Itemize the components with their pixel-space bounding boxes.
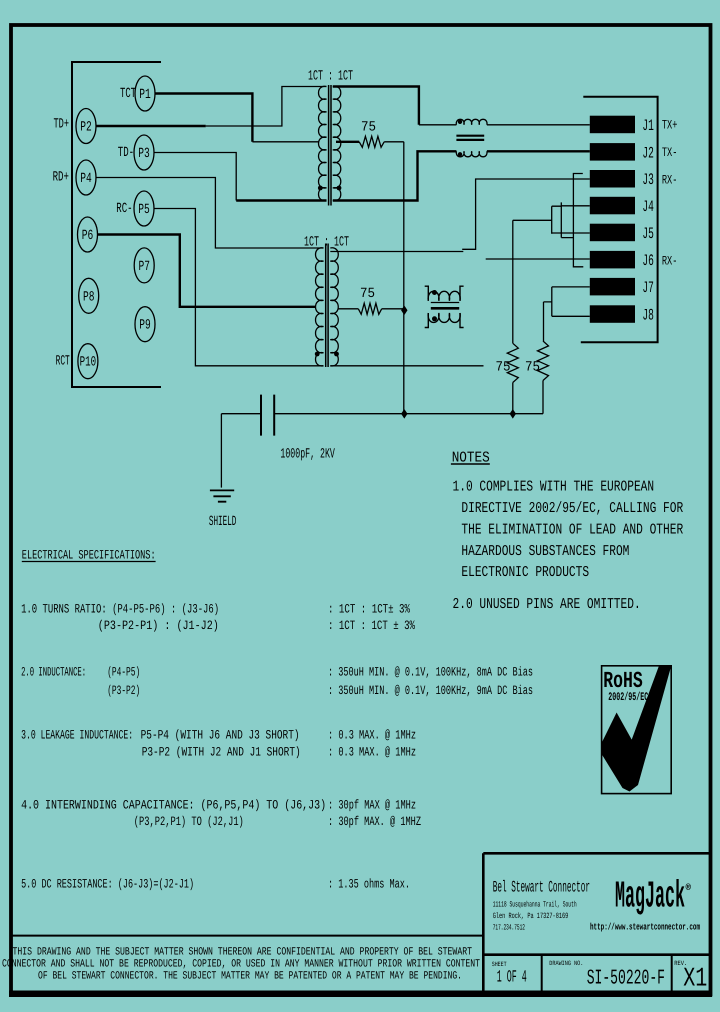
transformer T1 phase dot secondary (337, 186, 342, 191)
svg-text:1CT : 1CT: 1CT : 1CT (308, 69, 353, 85)
pin P9 (135, 307, 155, 342)
svg-text:3.0 LEAKAGE INDUCTANCE:: 3.0 LEAKAGE INDUCTANCE: (21, 728, 133, 743)
svg-text:75: 75 (361, 120, 376, 136)
svg-text:P6: P6 (82, 228, 94, 244)
svg-text:J7: J7 (642, 279, 654, 297)
wire P4 (RD+) to T2 primary top (96, 178, 324, 249)
svg-text:2002/95/EC: 2002/95/EC (608, 691, 648, 704)
wire bottom termination net (275, 413, 543, 415)
svg-text:P3-P2 (WITH J2 AND J1 SHORT): P3-P2 (WITH J2 AND J1 SHORT) (142, 745, 301, 760)
svg-text:J2: J2 (642, 144, 654, 162)
svg-text:RX-: RX- (662, 173, 678, 188)
wire T1 secondary bottom to choke L1 (333, 151, 457, 200)
svg-text:RX-: RX- (662, 254, 678, 269)
svg-text:THIS DRAWING AND THE SUBJECT M: THIS DRAWING AND THE SUBJECT MATTER SHOW… (13, 947, 473, 959)
wire to J7 (552, 286, 590, 288)
transformer T1 core (329, 85, 331, 206)
title address line 1 (493, 900, 577, 909)
wire R3 bottom lead (512, 383, 514, 414)
svg-text:75: 75 (360, 286, 375, 302)
svg-text:J4: J4 (642, 198, 654, 216)
wire P2 (TD+) to T1 primary top (96, 87, 327, 127)
jack pin J4 pad (590, 197, 635, 215)
resistor R1 value 75 (361, 120, 376, 136)
svg-text:P4: P4 (80, 171, 92, 187)
choke L2 bottom winding (425, 313, 464, 328)
wire P1 (TCT) to T1 primary center tap (155, 94, 319, 142)
svg-text:ELECTRONIC PRODUCTS: ELECTRONIC PRODUCTS (461, 564, 589, 581)
choke L1 phase dot top (458, 120, 462, 124)
resistor R2 value 75 (360, 286, 375, 302)
svg-text:J8: J8 (642, 307, 654, 325)
revision X1 (683, 965, 707, 995)
svg-text:THE ELIMINATION OF LEAD AND OT: THE ELIMINATION OF LEAD AND OTHER (461, 521, 683, 538)
jack pin J7 pad (590, 278, 635, 296)
wire to J8 (552, 315, 590, 317)
svg-text:(P3-P2-P1) : (J1-J2): (P3-P2-P1) : (J1-J2) (98, 618, 219, 633)
wire T2 secondary top (330, 251, 463, 253)
transformer T1 secondary winding (333, 86, 341, 200)
drawing number SI-50220-F (587, 967, 665, 990)
svg-text:®: ® (686, 883, 692, 893)
junction node R1 net / bottom net (401, 409, 407, 419)
resistor R4 (538, 341, 549, 381)
plug connector P box outline (72, 62, 161, 387)
label RD+ (53, 170, 69, 186)
jack pin J6 pad (590, 251, 635, 269)
svg-text:CONNECTOR AND SHALL NOT BE REP: CONNECTOR AND SHALL NOT BE REPRODUCED, C… (2, 959, 480, 971)
spec 1.0 turns ratio (21, 602, 415, 634)
ground symbol (shield) (210, 490, 234, 501)
svg-text:: 350uH MIN. @ 0.1V, 100KHz, 9: : 350uH MIN. @ 0.1V, 100KHz, 9mA DC Bias (328, 683, 533, 698)
label J3 (642, 171, 654, 189)
resistor R1 (336, 136, 404, 147)
svg-text:SHEET: SHEET (492, 961, 507, 968)
svg-text:TD+: TD+ (54, 117, 70, 133)
transformer T2 phase dot secondary (334, 352, 339, 357)
svg-text:Bel Stewart Connector: Bel Stewart Connector (493, 879, 590, 897)
wire vertical jog J3 to J6 (573, 174, 583, 267)
spec 3.0 leakage inductance (21, 728, 416, 760)
label RX- (J3) (662, 173, 678, 188)
svg-text:P2: P2 (80, 120, 92, 136)
RoHS logo box (602, 666, 672, 794)
wire to J4 (561, 205, 590, 207)
resistor R2 (339, 303, 405, 314)
jack pin J2 pad (590, 143, 635, 161)
svg-text:TD-: TD- (118, 145, 134, 161)
RoHS logo 2002/95/EC (608, 691, 648, 704)
svg-text:J3: J3 (642, 171, 654, 189)
sheet number 1 OF 4 (497, 969, 527, 988)
pin P2 (76, 109, 96, 144)
svg-text:4.0 INTERWINDING CAPACITANCE:: 4.0 INTERWINDING CAPACITANCE: (P6,P5,P4)… (21, 798, 326, 813)
resistor R3 (507, 343, 518, 382)
label SHIELD (209, 514, 237, 530)
jack pin J5 pad (590, 224, 635, 242)
svg-text:http://www.stewartconnector.co: http://www.stewartconnector.com (590, 922, 700, 933)
svg-text:TX-: TX- (662, 145, 678, 160)
transformer T1 primary winding (319, 86, 327, 200)
svg-text:1.0 TURNS RATIO: (P4-P5-P6) :: 1.0 TURNS RATIO: (P4-P5-P6) : (J3-J6) (21, 602, 219, 617)
choke L2 phase dot top (432, 290, 437, 295)
label TD- (118, 145, 134, 161)
label J2 (642, 144, 654, 162)
title address line 2 (493, 912, 569, 921)
svg-text:RD+: RD+ (53, 170, 69, 186)
wire R3 top lead (512, 220, 514, 343)
svg-text:P7: P7 (138, 259, 150, 275)
svg-text:: 1CT : 1CT± 3%: : 1CT : 1CT± 3% (328, 602, 410, 617)
title url (590, 922, 700, 933)
svg-text:75: 75 (525, 360, 540, 376)
svg-text:5.0 DC RESISTANCE: (J6-J3)=(J2: 5.0 DC RESISTANCE: (J6-J3)=(J2-J1) (21, 877, 194, 892)
svg-text:MagJack: MagJack (615, 876, 685, 919)
wire choke L1 to J1 (487, 124, 590, 126)
RoHS logo text (603, 668, 643, 694)
svg-text:2.0 UNUSED PINS ARE OMITTED.: 2.0 UNUSED PINS ARE OMITTED. (453, 596, 641, 613)
jack pin J1 pad (590, 116, 635, 134)
svg-text:TCT: TCT (120, 86, 136, 102)
wire to J3 (RX pair top) (462, 179, 590, 249)
label J8 (642, 307, 654, 325)
pin P4 (76, 160, 96, 195)
pin P1 (135, 76, 155, 111)
transformer T2 primary winding (316, 248, 324, 366)
transformer T2 core (326, 244, 328, 368)
junction node R3 / bottom net (510, 409, 516, 419)
label J4 (642, 198, 654, 216)
wire R1 to bottom net (403, 142, 405, 414)
svg-text:: 0.3 MAX. @ 1MHz: : 0.3 MAX. @ 1MHz (328, 745, 416, 760)
pin P8 (79, 278, 99, 313)
wire J7/J8 bracket to R4 (544, 287, 552, 341)
pin P6 (78, 217, 98, 252)
label SHEET (492, 961, 507, 968)
svg-text:1CT : 1CT: 1CT : 1CT (304, 235, 349, 251)
svg-text:SI-50220-F: SI-50220-F (587, 967, 665, 990)
svg-text:SHIELD: SHIELD (209, 514, 237, 530)
label TD+ (54, 117, 70, 133)
transformer T2 phase dot primary (315, 352, 320, 357)
svg-text:P5: P5 (138, 202, 150, 218)
svg-text:2.0 INDUCTANCE:: 2.0 INDUCTANCE: (21, 664, 86, 679)
transformer T2 label 1CT : 1CT (304, 235, 349, 251)
choke L2 top winding (425, 286, 464, 301)
pin P3 (134, 135, 154, 170)
heading NOTES (451, 449, 490, 466)
svg-text:J5: J5 (642, 225, 654, 243)
svg-text:P5-P4 (WITH J6 AND J3 SHORT): P5-P4 (WITH J6 AND J3 SHORT) (141, 728, 300, 743)
label RCT (56, 354, 70, 370)
disclaimer text (2, 947, 480, 983)
label RX- (J6) (662, 254, 678, 269)
junction node R2 / R1 net (401, 306, 407, 316)
svg-text:RCT: RCT (56, 354, 70, 370)
svg-text:11118 Susquehanna Trail, South: 11118 Susquehanna Trail, South (493, 900, 577, 909)
wire P6 to T2 primary center tap (98, 235, 317, 307)
title block outline (483, 853, 710, 994)
svg-text:HAZARDOUS SUBSTANCES FROM: HAZARDOUS SUBSTANCES FROM (461, 543, 629, 560)
choke L2 phase dot bottom (432, 316, 437, 321)
wire R3 net to J4/J5 bracket (513, 202, 574, 237)
jack pin J3 pad (590, 170, 635, 188)
MagJack logo (615, 876, 692, 919)
note 2.0 text (453, 596, 641, 613)
svg-text:RC-: RC- (116, 201, 132, 217)
resistor R3 value 75 (496, 360, 511, 376)
svg-text:(P4-P5): (P4-P5) (107, 664, 140, 679)
svg-text:OF BEL STEWART CONNECTOR. THE: OF BEL STEWART CONNECTOR. THE SUBJECT MA… (38, 971, 462, 983)
svg-text:: 1CT : 1CT ± 3%: : 1CT : 1CT ± 3% (328, 618, 415, 633)
label J7 (642, 279, 654, 297)
label TX+ (662, 118, 678, 133)
transformer T1 label 1CT : 1CT (308, 69, 353, 85)
label REV. (674, 960, 687, 967)
svg-text:P9: P9 (139, 318, 151, 334)
choke L1 core (456, 136, 484, 140)
spec 2.0 inductance (21, 664, 533, 698)
svg-text:: 30pf MAX. @ 1MHZ: : 30pf MAX. @ 1MHZ (328, 814, 421, 829)
svg-text:1000pF, 2KV: 1000pF, 2KV (280, 447, 335, 463)
wire R4 bottom lead (542, 381, 544, 414)
jack pin J8 pad (590, 305, 635, 323)
svg-text:Glen Rock, Pa 17327-8169: Glen Rock, Pa 17327-8169 (493, 912, 569, 921)
svg-text:: 0.3 MAX. @ 1MHz: : 0.3 MAX. @ 1MHz (328, 728, 416, 743)
pin P5 (134, 191, 154, 226)
choke L1 phase dot bottom (458, 152, 462, 156)
svg-text:J6: J6 (642, 252, 654, 270)
svg-text:(P3-P2): (P3-P2) (107, 683, 140, 698)
svg-text:717.234.7512: 717.234.7512 (493, 924, 525, 933)
wire choke L1 to J2 (487, 150, 590, 152)
spec 5.0 dc resistance (21, 877, 410, 892)
wire capacitor to shield ground (220, 414, 222, 488)
svg-text:: 1.35 ohms Max.: : 1.35 ohms Max. (328, 877, 410, 892)
wire to J5 (552, 232, 590, 234)
pin P10 (78, 344, 98, 379)
svg-text:TX+: TX+ (662, 118, 678, 133)
choke L1 bottom winding (456, 151, 487, 156)
wire T1 secondary top to choke L1 (333, 87, 457, 125)
spec 4.0 interwinding capacitance (21, 798, 421, 829)
svg-text:P8: P8 (83, 289, 95, 305)
svg-text:DRAWING NO.: DRAWING NO. (549, 960, 583, 967)
transformer T1 phase dot primary (318, 186, 323, 191)
wire to J6 (RX pair bottom) (486, 258, 590, 260)
svg-text:(P3,P2,P1) TO (J2,J1): (P3,P2,P1) TO (J2,J1) (134, 814, 244, 829)
wire P3 (TD-) to T1 primary bottom (154, 153, 327, 201)
svg-text:1.0 COMPLIES WITH THE EUROPEAN: 1.0 COMPLIES WITH THE EUROPEAN (453, 479, 655, 496)
pin P7 (134, 248, 154, 283)
transformer T2 secondary winding (330, 248, 338, 366)
title phone (493, 924, 525, 933)
capacitor C1 1000pF 2KV (221, 395, 274, 436)
label TX- (662, 145, 678, 160)
disclaimer box top line (11, 935, 483, 937)
label DRAWING NO. (549, 960, 583, 967)
svg-text:ELECTRICAL SPECIFICATIONS:: ELECTRICAL SPECIFICATIONS: (22, 548, 156, 563)
label J5 (642, 225, 654, 243)
choke L2 core (431, 303, 459, 309)
label J6 (642, 252, 654, 270)
wire P5 (RC-) to T2 primary bottom (154, 209, 324, 366)
resistor R4 value 75 (525, 360, 540, 376)
title Bel Stewart Connector (493, 879, 590, 897)
svg-text:: 350uH MIN. @ 0.1V, 100KHz, 8: : 350uH MIN. @ 0.1V, 100KHz, 8mA DC Bias (328, 664, 533, 679)
label 1000pF, 2KV (280, 447, 335, 463)
label RC- (116, 201, 132, 217)
note 1.0 text (453, 479, 684, 582)
connector J bracket outline (581, 97, 658, 343)
svg-text:P3: P3 (138, 146, 150, 162)
svg-text:P10: P10 (80, 355, 97, 371)
svg-text:P1: P1 (139, 87, 151, 103)
svg-text:DIRECTIVE 2002/95/EC, CALLING: DIRECTIVE 2002/95/EC, CALLING FOR (461, 500, 683, 517)
svg-text:X1: X1 (683, 965, 707, 995)
wire T2 secondary bottom (330, 365, 483, 367)
svg-text:1 OF 4: 1 OF 4 (497, 969, 527, 988)
svg-text:J1: J1 (642, 117, 654, 135)
svg-text:: 30pf MAX @ 1MHz: : 30pf MAX @ 1MHz (328, 798, 416, 813)
RoHS logo checkmark (602, 666, 672, 792)
choke L1 top winding (456, 119, 487, 124)
heading ELECTRICAL SPECIFICATIONS (22, 548, 156, 563)
label J1 (642, 117, 654, 135)
label TCT (120, 86, 136, 102)
